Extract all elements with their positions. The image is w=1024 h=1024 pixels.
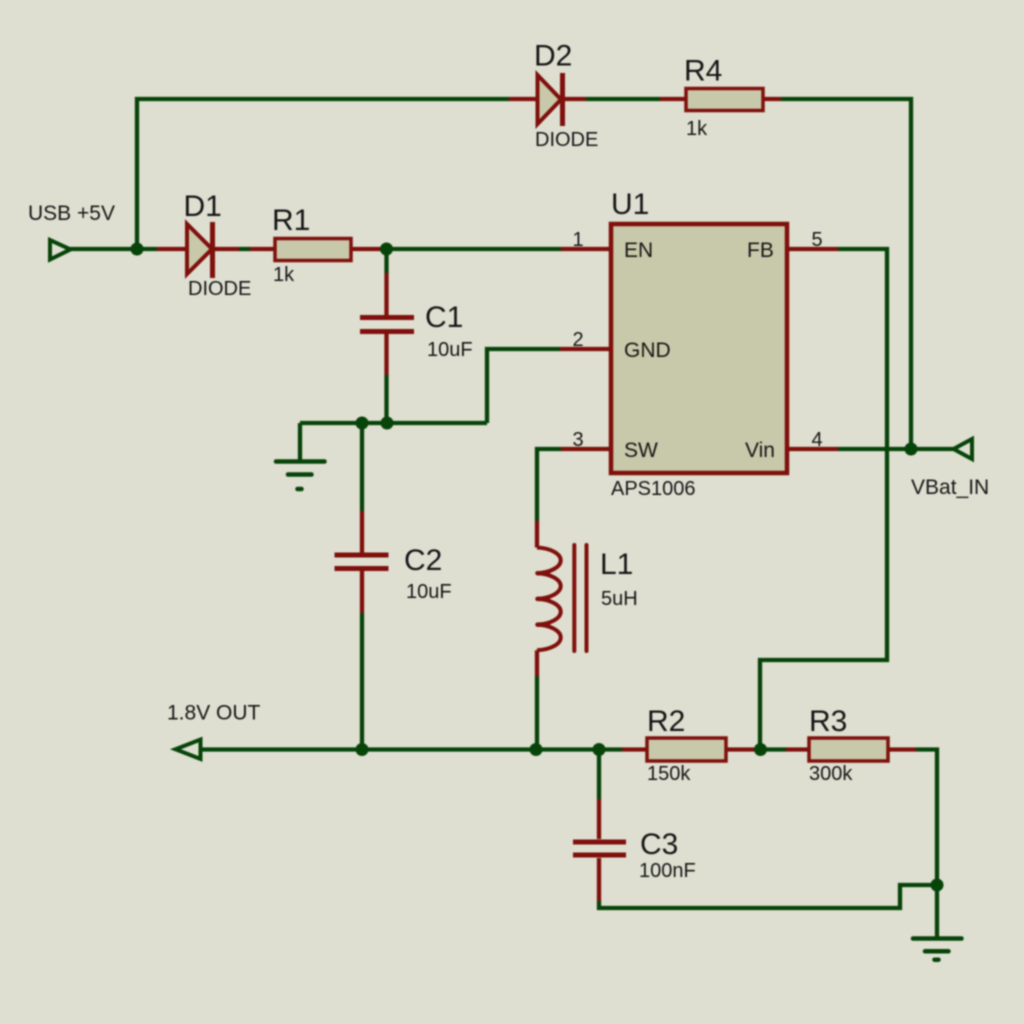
svg-text:C2: C2	[404, 544, 442, 577]
svg-text:5: 5	[811, 229, 822, 251]
svg-text:10uF: 10uF	[406, 581, 452, 603]
svg-text:DIODE: DIODE	[535, 129, 598, 151]
svg-text:5uH: 5uH	[601, 588, 638, 610]
svg-text:300k: 300k	[809, 763, 853, 785]
svg-text:4: 4	[811, 429, 822, 451]
svg-text:SW: SW	[624, 439, 658, 462]
svg-text:1: 1	[572, 229, 583, 251]
svg-text:EN: EN	[624, 239, 653, 262]
svg-text:C1: C1	[425, 301, 463, 334]
svg-text:L1: L1	[600, 548, 633, 581]
svg-text:D1: D1	[184, 190, 222, 223]
svg-text:DIODE: DIODE	[188, 278, 251, 300]
svg-text:1.8V OUT: 1.8V OUT	[167, 702, 261, 725]
svg-text:150k: 150k	[647, 763, 691, 785]
svg-text:VBat_IN: VBat_IN	[911, 476, 989, 499]
svg-text:R3: R3	[809, 705, 847, 738]
svg-text:Vin: Vin	[745, 439, 775, 462]
svg-text:10uF: 10uF	[427, 339, 473, 361]
svg-text:3: 3	[572, 429, 583, 451]
svg-text:FB: FB	[747, 239, 774, 262]
svg-text:USB +5V: USB +5V	[28, 202, 115, 225]
svg-text:100nF: 100nF	[639, 860, 696, 882]
svg-text:C3: C3	[640, 828, 678, 861]
svg-text:D2: D2	[534, 40, 572, 73]
svg-text:R1: R1	[272, 204, 310, 237]
svg-text:R4: R4	[684, 55, 722, 88]
svg-text:U1: U1	[611, 188, 649, 221]
svg-text:APS1006: APS1006	[611, 478, 696, 500]
svg-text:GND: GND	[624, 339, 671, 362]
svg-text:2: 2	[572, 329, 583, 351]
svg-text:R2: R2	[647, 705, 685, 738]
svg-text:1k: 1k	[686, 118, 708, 140]
svg-text:1k: 1k	[273, 264, 295, 286]
